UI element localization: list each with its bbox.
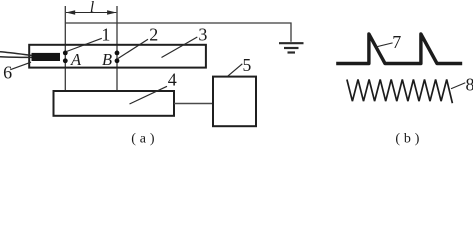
leader line for label 5 <box>228 64 243 76</box>
probe dot B lower <box>115 58 120 63</box>
instrument box 5 <box>213 77 256 127</box>
svg-text:( a ): ( a ) <box>131 132 155 147</box>
probe dot A upper <box>63 51 68 56</box>
svg-text:4: 4 <box>168 70 177 90</box>
probe dot A lower <box>63 58 68 63</box>
pulse waveform 7 <box>336 34 462 64</box>
svg-text:B: B <box>102 50 112 69</box>
lead wire <box>0 52 32 56</box>
svg-text:l: l <box>90 0 94 16</box>
svg-text:3: 3 <box>198 24 207 44</box>
svg-text:8: 8 <box>466 75 473 95</box>
leader line for label 8 <box>451 83 465 89</box>
leader line for label 6 <box>10 62 31 69</box>
instrument box 4 <box>54 91 175 116</box>
svg-text:1: 1 <box>101 24 110 44</box>
svg-text:7: 7 <box>392 32 401 52</box>
probe dot B upper <box>115 51 120 56</box>
leader line for label 3 <box>162 37 198 58</box>
wire box 4 to box 5 <box>174 103 213 105</box>
svg-text:( b ): ( b ) <box>395 132 419 147</box>
extension line at probe A <box>64 6 66 91</box>
extension line at probe B <box>116 6 118 91</box>
ground <box>279 43 304 52</box>
specimen bar 3 <box>29 45 206 68</box>
leader line for label 4 <box>130 86 168 104</box>
zigzag wave 8 <box>347 80 453 104</box>
dimension line l with arrowheads <box>66 10 117 15</box>
svg-text:5: 5 <box>243 55 252 75</box>
svg-text:2: 2 <box>149 24 158 44</box>
wire from probes to ground <box>65 23 291 42</box>
lead wire <box>0 56 32 59</box>
svg-text:6: 6 <box>3 63 12 83</box>
leader line for label 7 <box>376 43 393 47</box>
svg-text:A: A <box>70 50 82 69</box>
leader line for label 2 <box>118 39 148 58</box>
leader line for label 1 <box>67 38 102 51</box>
electrode 6 (black block) <box>32 53 61 61</box>
